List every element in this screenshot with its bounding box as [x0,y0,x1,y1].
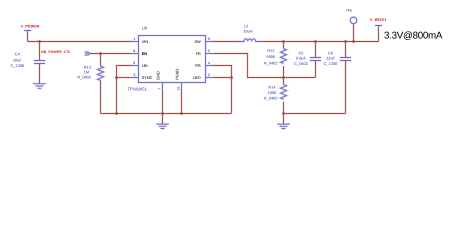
soft halo pass [10,9,442,129]
main pass [10,9,442,129]
